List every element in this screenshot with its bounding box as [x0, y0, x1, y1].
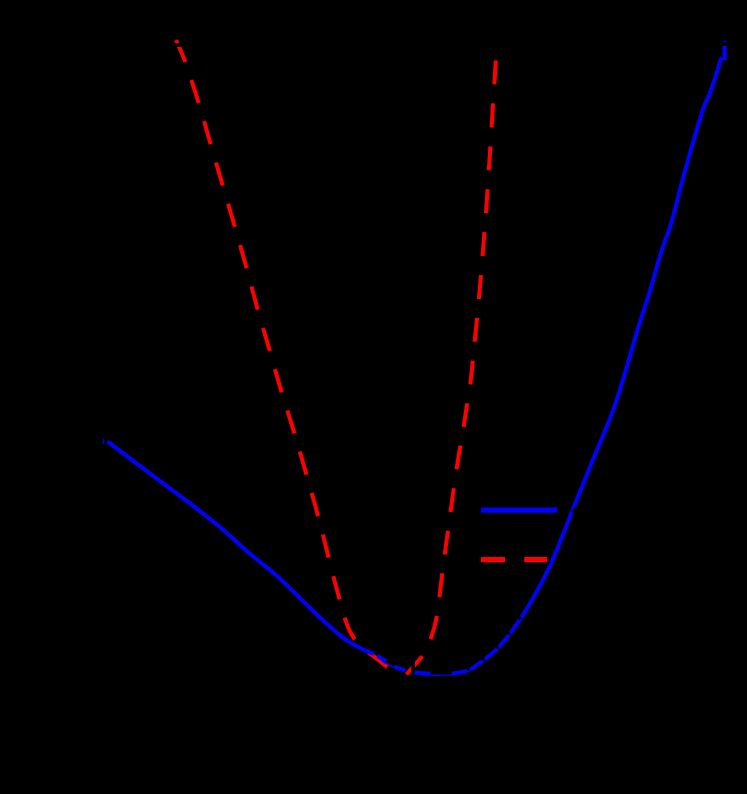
blue f(x) solid left branch — [108, 442, 375, 655]
blue f(x) thick dashed portion, left of minimum — [378, 656, 416, 673]
legend blue solid line sample — [481, 508, 557, 513]
blue f(x) thin under-curve, left of the minimum marker — [382, 661, 406, 670]
blue curve right end tick — [724, 41, 727, 42]
black notch crossing blue right branch — [572, 505, 579, 512]
blue f(x) thin underlying curve near minimum — [414, 608, 529, 676]
red dashed model curve, left branch — [176, 40, 403, 677]
black vertical marker line at the minimizer — [411, 648, 415, 694]
blue f(x) solid right branch — [528, 58, 722, 607]
black gap carving the small start dot of the red curve — [174, 43, 182, 47]
blue f(x) thick dashed portion, right of minimum — [415, 607, 528, 674]
blue curve left end tick — [103, 439, 105, 444]
black overlay hiding one thick dash at the bottom — [432, 668, 450, 677]
red dashed model curve, right branch (drawn from top down) — [405, 57, 497, 677]
legend red dashed line sample — [481, 557, 547, 562]
blue curve vertical end segment — [722, 46, 726, 60]
